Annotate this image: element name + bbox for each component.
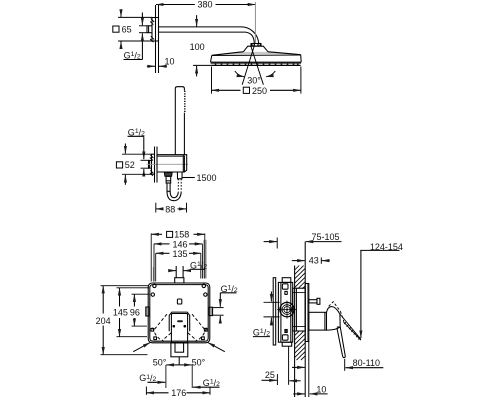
valve stem xyxy=(309,312,327,330)
lever swing dashed lines xyxy=(153,314,207,341)
dim 75-105 xyxy=(264,238,342,249)
dim box52 (holder escutcheon) xyxy=(122,144,152,185)
svg-text:176: 176 xyxy=(171,388,186,398)
svg-text:50°: 50° xyxy=(153,358,167,368)
dim 176 xyxy=(146,387,210,395)
cartridge sleeve through wall xyxy=(293,288,306,331)
svg-text:204: 204 xyxy=(96,316,111,326)
holder union nub xyxy=(149,160,152,168)
dim 135 xyxy=(156,253,201,281)
hose connector cylinder xyxy=(166,176,171,191)
shower arm xyxy=(159,27,259,44)
svg-text:145: 145 xyxy=(113,308,128,318)
label G1/2 (holder union) xyxy=(128,136,149,176)
side ports xyxy=(146,307,213,316)
centre line xyxy=(147,163,189,165)
supply pipe right (grey) xyxy=(203,240,206,279)
svg-text:52: 52 xyxy=(125,160,135,170)
wall hatching lower xyxy=(295,331,306,360)
svg-text:250: 250 xyxy=(252,86,267,96)
svg-text:1500: 1500 xyxy=(197,173,217,183)
svg-text:25: 25 xyxy=(265,370,275,380)
ball joint nut xyxy=(251,44,261,47)
svg-text:65: 65 xyxy=(122,24,132,34)
dim box158 xyxy=(151,233,205,281)
label G1/2 (side inlet) xyxy=(264,292,280,325)
box centre square xyxy=(177,299,181,304)
dim 80-110 xyxy=(292,359,383,371)
wall (middle unit) xyxy=(155,147,158,183)
wall section lines xyxy=(295,242,306,397)
hose outlet nut (dark) xyxy=(164,172,172,176)
box rear rail xyxy=(273,278,276,345)
lever handle (down position) xyxy=(337,327,345,358)
cartridge mark (dark bar) xyxy=(177,320,183,322)
svg-text:88: 88 xyxy=(165,205,175,215)
svg-text:380: 380 xyxy=(198,0,213,10)
supply pipe left (grey) xyxy=(152,267,154,282)
50deg angle leader lines xyxy=(133,342,225,351)
dim 10 (finished wall) xyxy=(293,342,327,398)
holder body xyxy=(157,155,187,172)
dim 96 xyxy=(132,294,150,326)
dim 88 (holder depth) xyxy=(156,203,187,213)
svg-text:30°: 30° xyxy=(247,76,261,86)
svg-text:124-154: 124-154 xyxy=(370,242,403,252)
label G1/2 (box top port) xyxy=(169,269,205,270)
trim plate side view xyxy=(305,284,309,342)
wall hatching upper xyxy=(295,266,306,289)
dim box250 (head width) xyxy=(212,67,301,94)
svg-text:43: 43 xyxy=(309,256,319,266)
union nub G1/2 (arm) xyxy=(147,26,152,33)
label G1/2 (arm union) xyxy=(124,13,148,60)
dim 145 xyxy=(117,288,150,337)
label G1/2 (bottom right port) xyxy=(193,386,220,388)
svg-text:96: 96 xyxy=(130,308,140,318)
rough-in box body xyxy=(148,283,210,343)
outlet below box xyxy=(171,343,188,357)
30 deg swing arrows xyxy=(235,71,275,77)
dim 43 xyxy=(292,258,330,264)
lever dashed ghost xyxy=(329,302,344,322)
dim 204 xyxy=(101,286,149,355)
svg-text:135: 135 xyxy=(173,249,188,259)
dim 146 xyxy=(154,244,202,282)
box screws xyxy=(151,284,207,339)
shower head (side view) xyxy=(211,46,302,65)
wall (top unit) xyxy=(156,5,159,73)
50deg arrows at centre line xyxy=(166,357,192,365)
svg-text:10: 10 xyxy=(316,384,326,394)
bottom reference lines xyxy=(166,365,192,388)
handle tail / hose nut xyxy=(177,172,182,192)
svg-text:158: 158 xyxy=(174,230,189,240)
dim 25 xyxy=(262,347,301,386)
lever handle base xyxy=(327,307,341,331)
nozzle dots xyxy=(215,64,299,66)
label 1500 (hose) xyxy=(183,177,195,179)
label G1/2 (bottom left port) xyxy=(148,381,166,383)
label 124-154 xyxy=(360,250,399,338)
svg-text:10: 10 xyxy=(165,57,175,67)
svg-text:50°: 50° xyxy=(192,358,206,368)
dim 10 (wall offset) xyxy=(147,65,167,67)
hand shower handle xyxy=(175,87,185,155)
holder escutcheon xyxy=(150,154,155,176)
box top thread stub xyxy=(175,266,184,283)
spray angle lines xyxy=(242,46,263,85)
function unit housing xyxy=(169,312,190,343)
box body side view xyxy=(278,278,292,347)
inlet port circles xyxy=(277,301,297,319)
escutcheon (arm wall flange, side view) xyxy=(150,18,158,43)
svg-text:75-105: 75-105 xyxy=(312,232,340,242)
dim box65 (escutcheon) xyxy=(118,11,152,48)
label G1/2 (box right port) xyxy=(213,293,237,322)
dim 380 top xyxy=(156,2,255,43)
diverter knob xyxy=(309,298,320,304)
lever handle blade (open position, hatched) xyxy=(340,314,361,340)
svg-text:100: 100 xyxy=(190,42,205,52)
dim 100 (arm to head face) xyxy=(193,15,211,76)
svg-text:80-110: 80-110 xyxy=(353,358,380,368)
shower hose xyxy=(167,191,181,200)
